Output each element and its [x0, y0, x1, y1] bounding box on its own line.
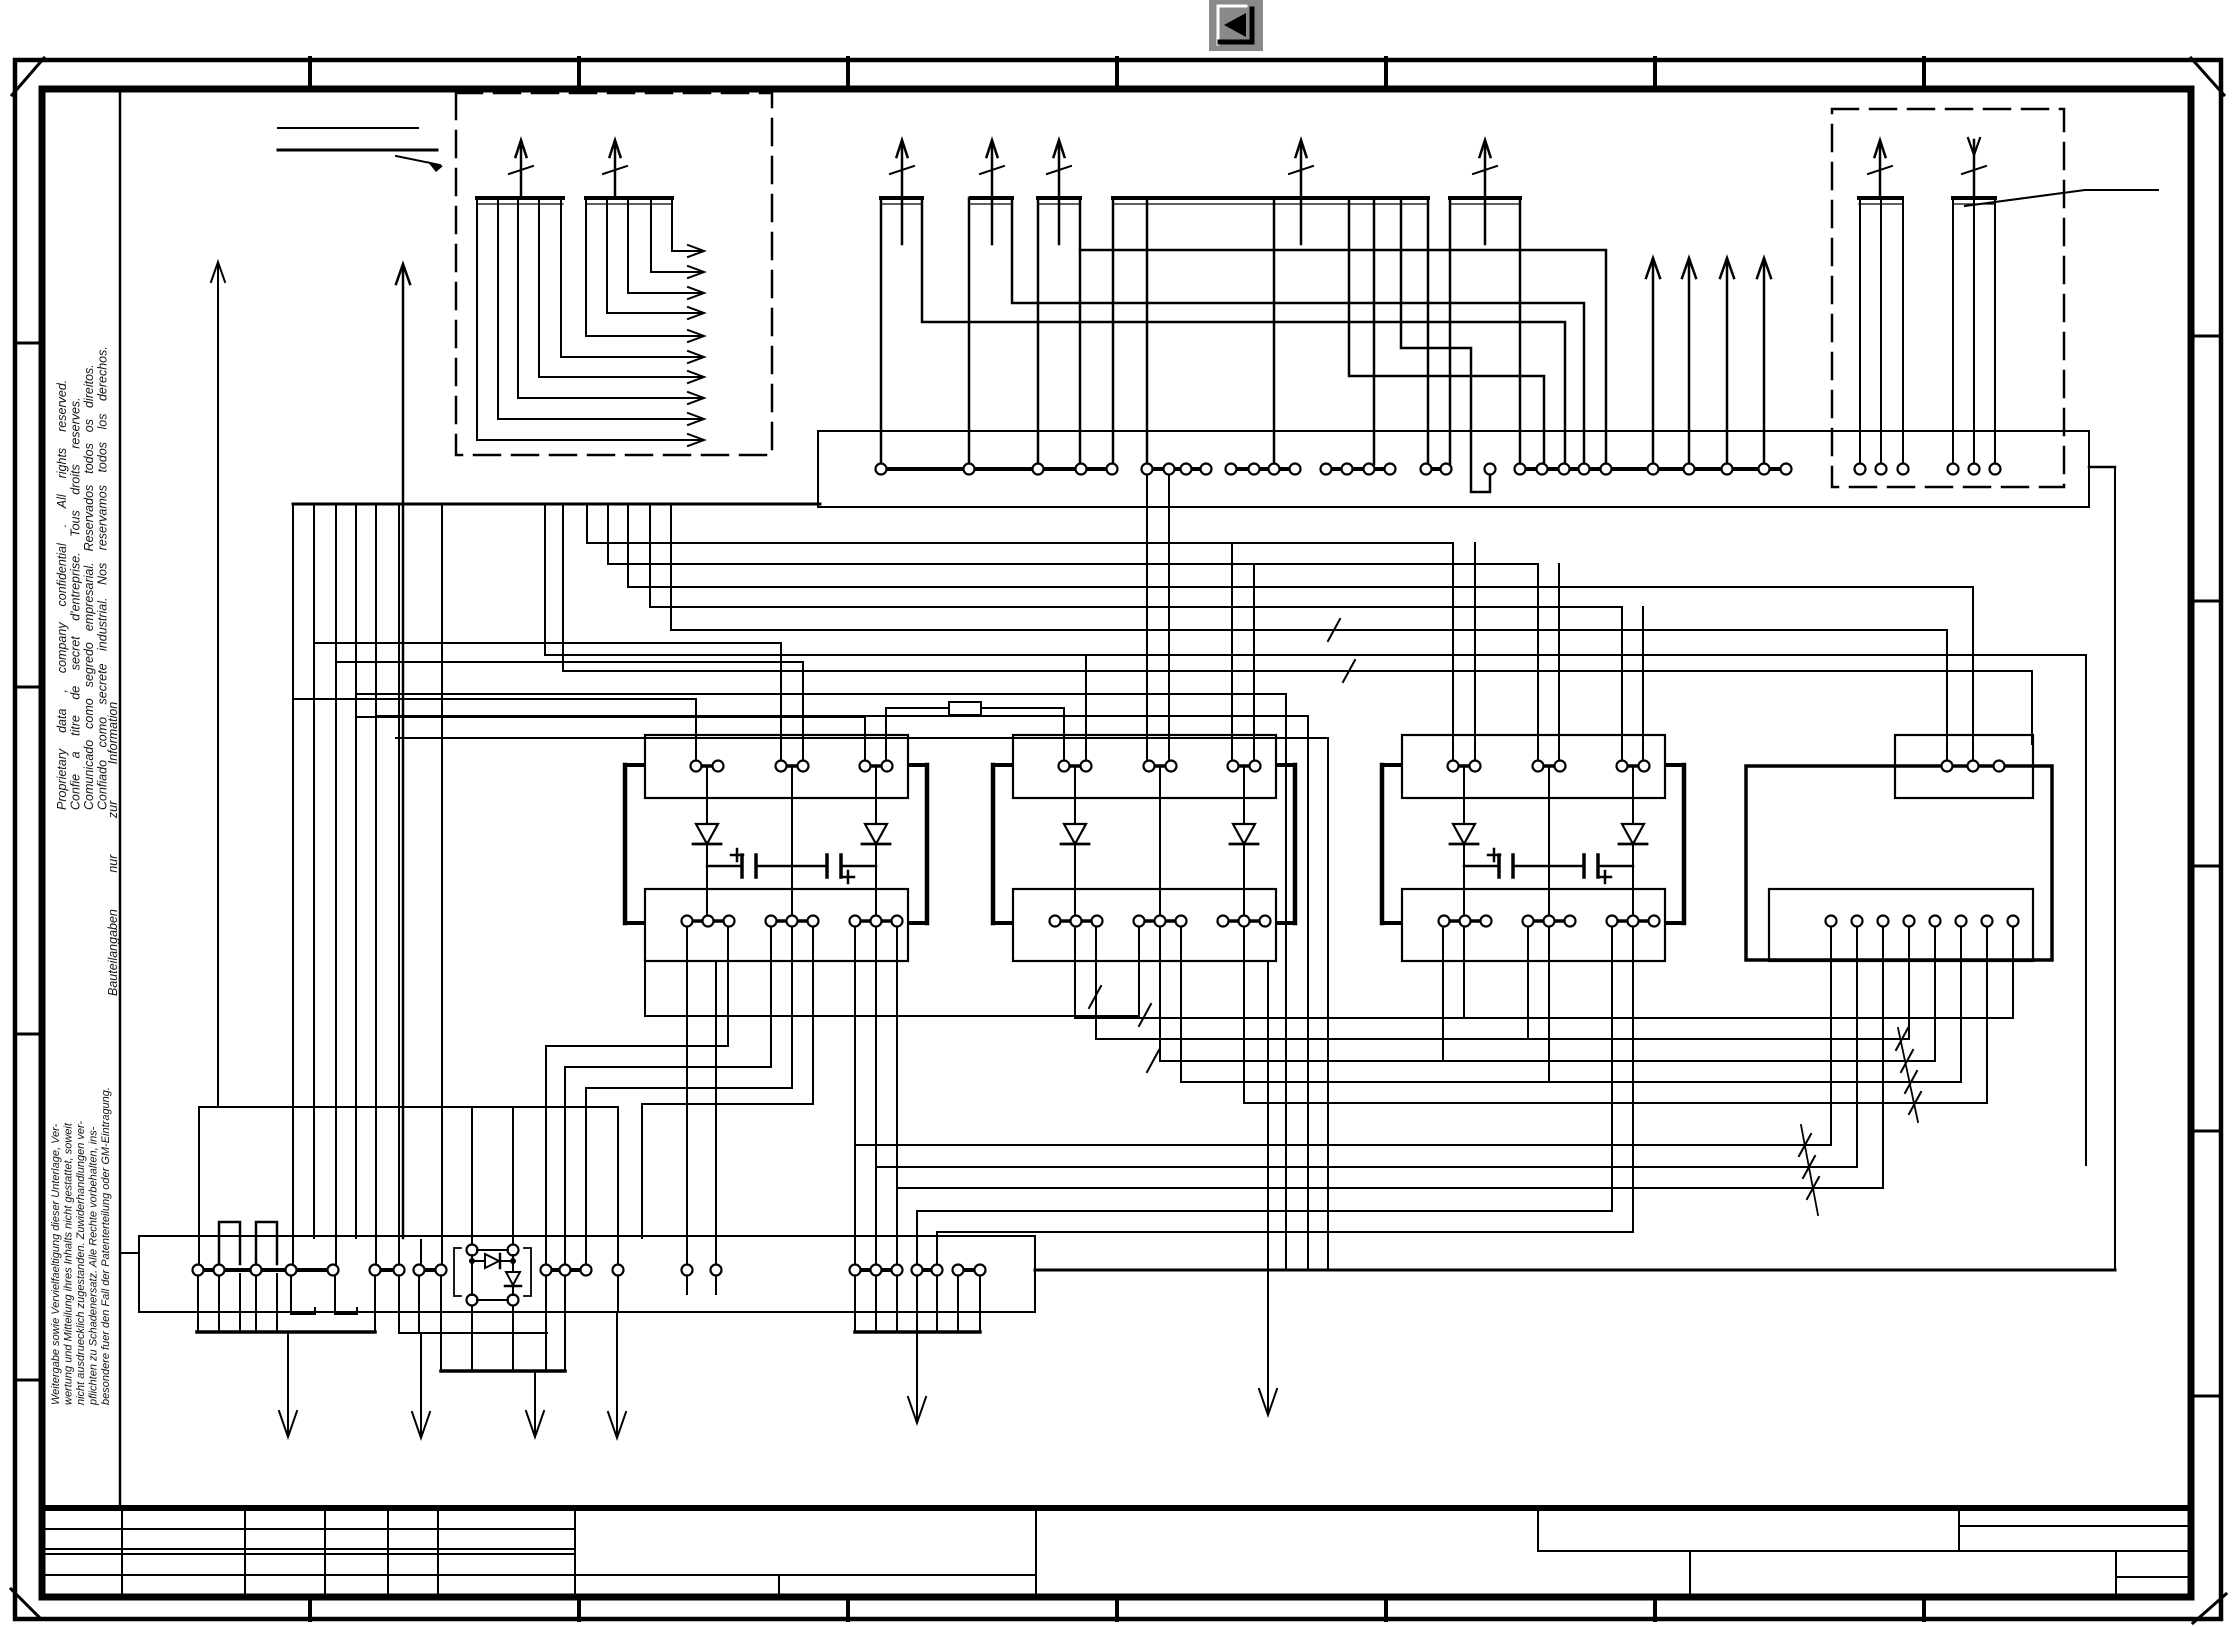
svg-text:Comunicado como segredo empres: Comunicado como segredo empresarial. Res… [82, 364, 96, 810]
svg-text:Proprietary data , company con: Proprietary data , company confidential … [55, 380, 69, 810]
svg-text:wertung und Mitteilung ihres I: wertung und Mitteilung ihres Inhalts nic… [63, 1122, 75, 1405]
svg-text:pflichten zu Schadenersatz. Al: pflichten zu Schadenersatz. Alle Rechte … [88, 1126, 100, 1406]
svg-text:Confie a titre de secret d'ent: Confie a titre de secret d'entreprise. T… [69, 397, 83, 810]
svg-text:besondere fuer den Fall der Pa: besondere fuer den Fall der Patenterteil… [100, 1087, 112, 1405]
svg-text:nicht ausdruecklich zugestande: nicht ausdruecklich zugestanden. Zuwider… [75, 1121, 87, 1405]
svg-text:Weitergabe sowie Vervielfaelti: Weitergabe sowie Vervielfaeltigung diese… [50, 1123, 62, 1405]
svg-text:Bauteilangaben nur zur Informa: Bauteilangaben nur zur Information [106, 702, 120, 996]
